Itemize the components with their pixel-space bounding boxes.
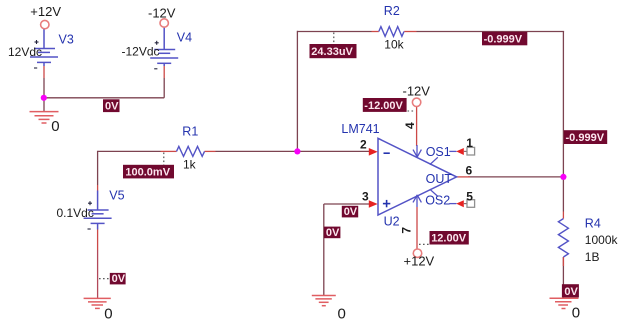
svg-text:24.33uV: 24.33uV	[311, 46, 353, 58]
svg-text:2: 2	[360, 138, 367, 152]
svg-text:-12V: -12V	[148, 5, 176, 20]
svg-text:0V: 0V	[344, 206, 358, 218]
svg-text:6: 6	[466, 163, 473, 177]
svg-text:-12Vdc: -12Vdc	[122, 44, 160, 58]
svg-text:R2: R2	[384, 4, 400, 18]
svg-text:OS2: OS2	[425, 194, 450, 208]
svg-text:OS1: OS1	[426, 145, 451, 159]
svg-text:R4: R4	[585, 217, 601, 231]
svg-text:100.0mV: 100.0mV	[125, 167, 170, 179]
svg-text:-0.999V: -0.999V	[484, 34, 523, 46]
svg-text:V4: V4	[177, 31, 192, 45]
svg-text:0V: 0V	[105, 101, 119, 113]
svg-text:0: 0	[104, 306, 112, 323]
svg-text:V3: V3	[59, 33, 74, 47]
svg-text:OUT: OUT	[426, 172, 453, 186]
svg-text:-0.999V: -0.999V	[566, 132, 605, 144]
svg-text:LM741: LM741	[341, 122, 379, 136]
svg-text:0V: 0V	[326, 227, 340, 239]
svg-text:R1: R1	[182, 124, 198, 138]
svg-text:U2: U2	[384, 215, 400, 229]
svg-text:V5: V5	[109, 189, 124, 203]
svg-text:0: 0	[51, 118, 59, 135]
svg-text:0: 0	[338, 306, 346, 323]
svg-text:1000k: 1000k	[585, 233, 619, 247]
svg-text:+12V: +12V	[30, 4, 61, 19]
svg-text:10k: 10k	[384, 38, 404, 52]
svg-text:12.00V: 12.00V	[431, 233, 467, 245]
svg-text:7: 7	[400, 227, 414, 234]
svg-text:1B: 1B	[585, 250, 600, 264]
svg-text:+12V: +12V	[404, 253, 435, 268]
svg-text:0V: 0V	[564, 286, 578, 298]
svg-text:12Vdc: 12Vdc	[8, 45, 42, 59]
svg-text:1k: 1k	[183, 158, 197, 172]
svg-text:0.1Vdc: 0.1Vdc	[57, 206, 94, 220]
svg-text:4: 4	[403, 122, 417, 129]
svg-text:3: 3	[362, 189, 369, 203]
svg-text:0: 0	[572, 305, 580, 322]
svg-text:5: 5	[466, 189, 473, 203]
svg-text:-12V: -12V	[403, 83, 431, 98]
svg-text:0V: 0V	[112, 273, 126, 285]
svg-text:1: 1	[466, 136, 473, 150]
svg-text:-12.00V: -12.00V	[364, 100, 403, 112]
